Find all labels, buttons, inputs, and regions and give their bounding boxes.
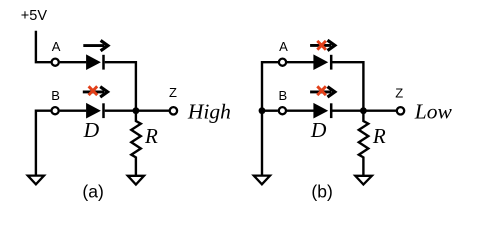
ground below resistor R — [128, 176, 144, 185]
svg-text:B: B — [51, 88, 60, 103]
junction dot at resistor top (b) — [360, 107, 367, 114]
svg-text:A: A — [279, 39, 288, 54]
wire diode B cathode to node Z (b) — [332, 109, 396, 111]
wire node B to ground rail — [36, 111, 51, 176]
junction dot input rail at node B row — [259, 107, 266, 114]
wire node B to diode B anode — [60, 109, 87, 111]
blocked current arrow above diode B — [83, 86, 108, 97]
current arrow (conducting) above diode A — [83, 40, 108, 50]
node B terminal circle — [52, 107, 59, 114]
wire input rail to node A (b) — [262, 62, 278, 176]
diode A (D) — [86, 54, 103, 70]
wire node B to diode anode (b) — [287, 109, 314, 111]
diode A (b) — [313, 54, 331, 70]
diode B (b) — [313, 103, 331, 119]
ground (input rail b) — [254, 176, 270, 185]
ground below resistor R (b) — [355, 176, 372, 185]
resistor R zigzag — [131, 111, 141, 176]
diode B — [86, 103, 103, 119]
wire diode A cathode to junction corner — [105, 62, 136, 110]
blocked current arrow above diode B (b) — [310, 86, 335, 97]
wire diode A cathode to junction corner (b) — [332, 62, 363, 110]
wire input rail to node B (b) — [262, 109, 278, 111]
svg-text:(a): (a) — [82, 181, 103, 201]
node A terminal circle — [52, 59, 59, 66]
node A terminal circle (b) — [279, 59, 286, 66]
svg-text:+5V: +5V — [21, 8, 48, 24]
wire node A to diode A anode — [60, 61, 87, 63]
node Z terminal circle (b) — [397, 107, 404, 114]
blocked current arrow above diode A (b) — [310, 40, 335, 50]
svg-text:R: R — [372, 124, 386, 148]
svg-text:Z: Z — [169, 85, 177, 100]
svg-text:Z: Z — [395, 86, 403, 101]
ground (input B) — [28, 176, 44, 185]
node Z terminal circle — [170, 107, 177, 114]
svg-text:D: D — [83, 118, 100, 142]
svg-text:A: A — [52, 39, 61, 54]
svg-text:B: B — [279, 88, 288, 103]
svg-text:Low: Low — [414, 99, 453, 123]
svg-text:(b): (b) — [311, 181, 332, 201]
svg-text:High: High — [187, 99, 231, 123]
node B terminal circle (b) — [279, 107, 286, 114]
wire node A to diode anode (b) — [287, 61, 314, 63]
wire diode B cathode to node Z — [105, 109, 170, 111]
resistor R zigzag (b) — [359, 111, 369, 176]
svg-text:D: D — [310, 118, 327, 142]
wire +5V stub to node A — [36, 31, 51, 62]
svg-text:R: R — [144, 124, 158, 148]
junction dot at resistor top — [133, 107, 140, 114]
